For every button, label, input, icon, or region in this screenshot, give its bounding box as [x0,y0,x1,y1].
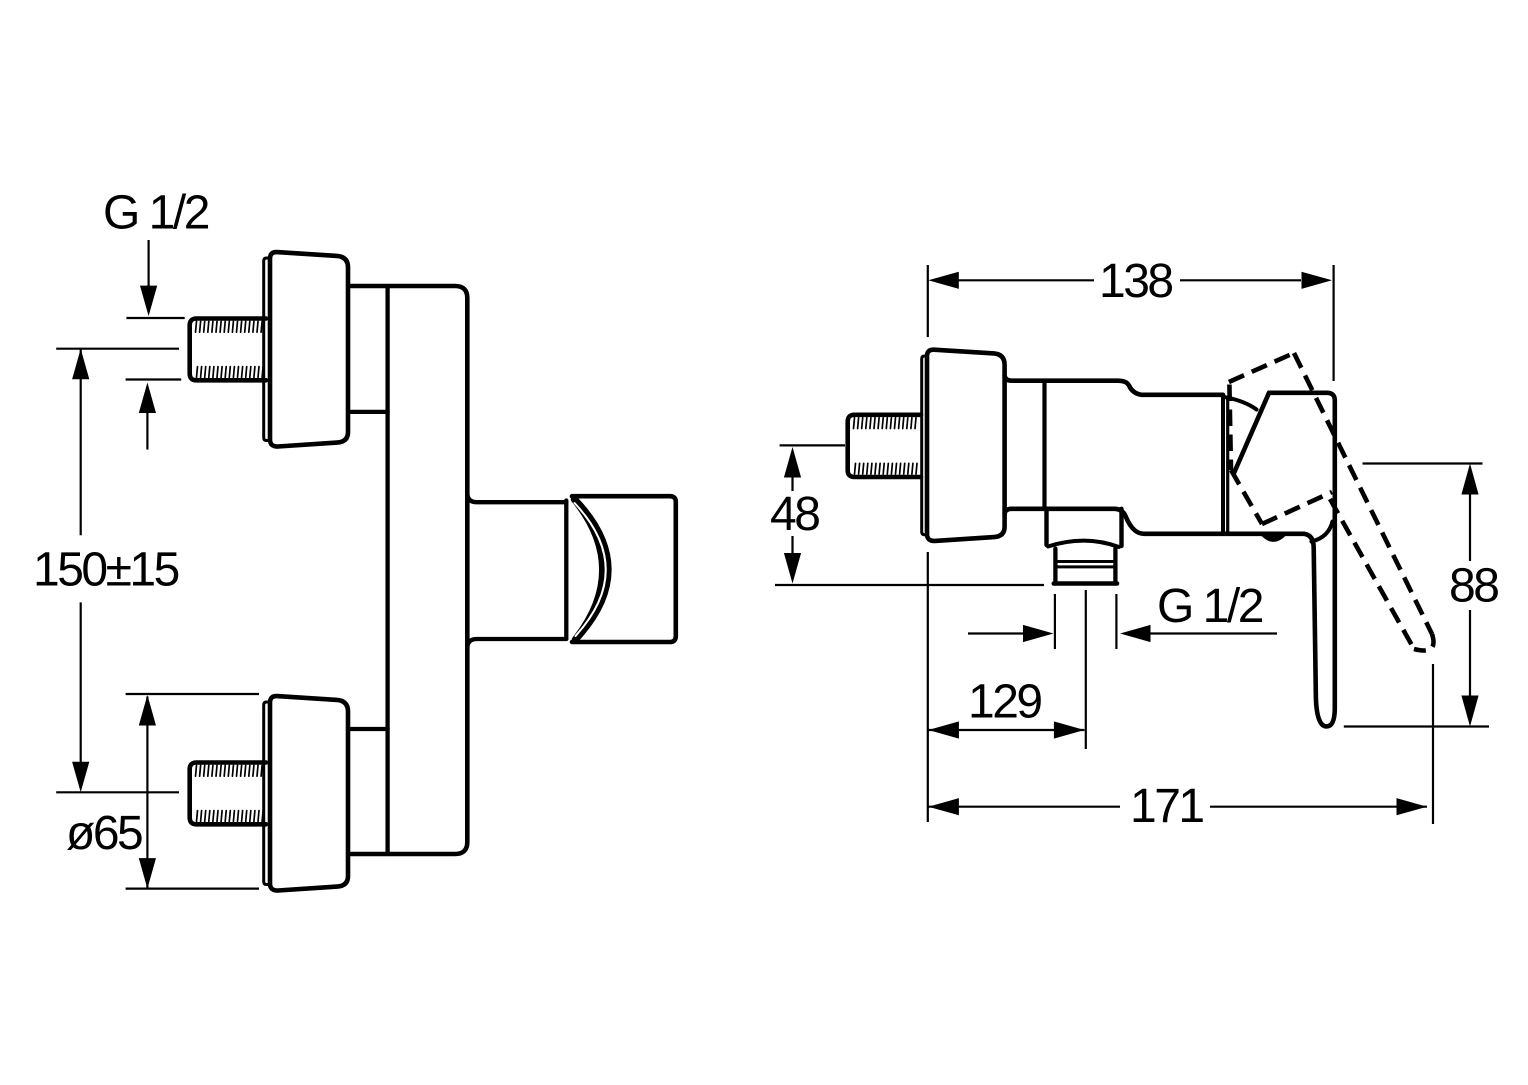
thread hatching upper [854,418,917,429]
handle hub top and right edge, lever right edge [1269,393,1335,727]
arrowhead 138 right [1302,272,1333,289]
G1/2 dim line [1149,632,1277,634]
bottom wall plate (back disc) [264,702,276,885]
up arrow tail under thread [146,412,148,450]
ext line 48 bottom [775,584,1044,586]
arrowhead 171 left [928,798,959,815]
G1/2 arrow tail right-pointing [968,632,1024,634]
arrowhead 48 bottom [784,553,801,584]
nozzle groove line 1 [1055,560,1115,563]
top inlet neck bottom line [351,410,388,414]
top thread hatching lower [197,367,264,378]
ext line thread bottom [126,378,182,380]
ext line 48 top [780,444,845,446]
top thread hatching upper [196,321,263,332]
cap dome bottom arc [1262,534,1285,540]
nozzle mouth [1054,581,1117,586]
handle grip outline [572,496,676,642]
arrowhead 138 left [928,272,959,289]
handle hub front diagonal [1234,393,1269,473]
171 dim line left part [928,806,1120,808]
handle neck top line with fillet [467,494,566,503]
arrowhead dia65 top [139,695,156,726]
ext line flange top (bottom assembly) [126,693,259,695]
ext line nozzle left [1054,594,1056,649]
arrowhead dia65 bottom [139,858,156,889]
88 dim line upper [1469,494,1471,561]
handle grip face white sliver [575,503,606,636]
150 dim line upper part [80,349,82,536]
cartridge section top edge [1005,376,1223,395]
48 dim line upper [791,477,793,491]
outlet block left edge [1044,509,1048,545]
ext line thread axis top [56,348,179,350]
ext line 138 left [927,265,929,337]
outlet nozzle right edge [1113,549,1117,584]
wall plate side [922,356,933,535]
thread hatching lower [855,463,918,474]
ext line 88 top [1363,462,1483,464]
svg-text:138: 138 [1099,255,1172,308]
bottom inlet neck top line [351,727,388,731]
88 dim line lower [1469,610,1471,696]
arrowhead 48 top [784,447,801,478]
arrowhead 129 left [928,721,959,738]
outlet saddle arc [1048,541,1119,547]
ext line 88 bottom [1344,725,1489,727]
handle neck end face [564,501,568,639]
arrowhead 88 bottom [1461,696,1478,727]
handle neck bottom line with fillet [467,639,566,648]
outlet block right edge [1119,509,1123,546]
dashed hub bottom edge [1262,492,1332,524]
svg-text:150±15: 150±15 [33,544,179,597]
cartridge end face line 2 [1226,398,1229,533]
dashed lever lower-left edge [1330,499,1414,649]
top flange disc [270,252,348,446]
body left edge [385,286,389,854]
svg-text:48: 48 [770,488,819,541]
dashed hub top edge [1229,353,1294,382]
bottom threaded tail [190,763,266,825]
cartridge end face line 1 [1221,395,1225,533]
cap dome top arc [1225,397,1257,409]
ext line 138 right [1332,265,1334,381]
dashed hub+lever upper right edge [1294,353,1432,634]
bottom flange disc [270,696,348,890]
dashed lever tip arc [1414,634,1434,651]
ext line thread axis bottom [56,791,179,793]
138 dim line right part [1180,279,1301,281]
ext line thread top [126,317,184,319]
129 dim line [928,729,1085,731]
arrowhead nozzle-left right-pointing [1023,625,1054,642]
flange disc side [927,350,1005,541]
bottom thread hatching upper [196,765,263,776]
handle crease arc [1312,522,1333,542]
171 dim line right part [1210,806,1427,808]
dashed hub lower-left edge [1231,470,1262,524]
arrowhead 129 right [1054,721,1085,738]
svg-text:G 1/2: G 1/2 [1157,580,1263,633]
ext line 171 left (wall line) [927,552,929,822]
body outline [351,286,467,854]
ext line 171 right [1432,664,1434,824]
svg-text:129: 129 [968,676,1041,729]
arrowhead G1/2 left-pointing [1120,625,1151,642]
threaded tail side [848,415,921,477]
svg-text:G 1/2: G 1/2 [103,187,209,240]
138 dim line left part [956,279,1094,281]
svg-text:88: 88 [1449,560,1498,613]
bottom thread hatching lower [197,811,264,822]
150 dim line lower part [80,602,82,784]
svg-text:ø65: ø65 [66,807,142,860]
nozzle groove line 2 [1055,565,1115,568]
arrowhead 171 right [1397,798,1428,815]
ext line nozzle axis [1085,590,1087,749]
handle grip face arc inner [574,500,602,640]
arrowhead G1/2 down [140,286,157,317]
ext line flange bottom [126,887,259,889]
arrowhead thread bottom up [139,383,156,414]
outlet nozzle left edge [1053,549,1057,584]
G1/2 leader line [148,240,150,288]
svg-text:171: 171 [1130,780,1203,833]
top wall plate (back disc) [264,258,276,441]
dia65 dim line [146,697,148,889]
arrowhead 150 top [72,349,89,380]
arrowhead 88 top [1461,464,1478,495]
cartridge section bottom edge and lever join [1005,509,1314,548]
cartridge divider line [1042,381,1046,509]
arrowhead 150 bottom [72,762,89,793]
dashed hub left edge [1229,385,1231,471]
handle grip face arc outer [574,498,609,641]
48 dim line lower [791,536,793,554]
ext line nozzle right [1115,594,1117,649]
top threaded tail [190,319,266,381]
